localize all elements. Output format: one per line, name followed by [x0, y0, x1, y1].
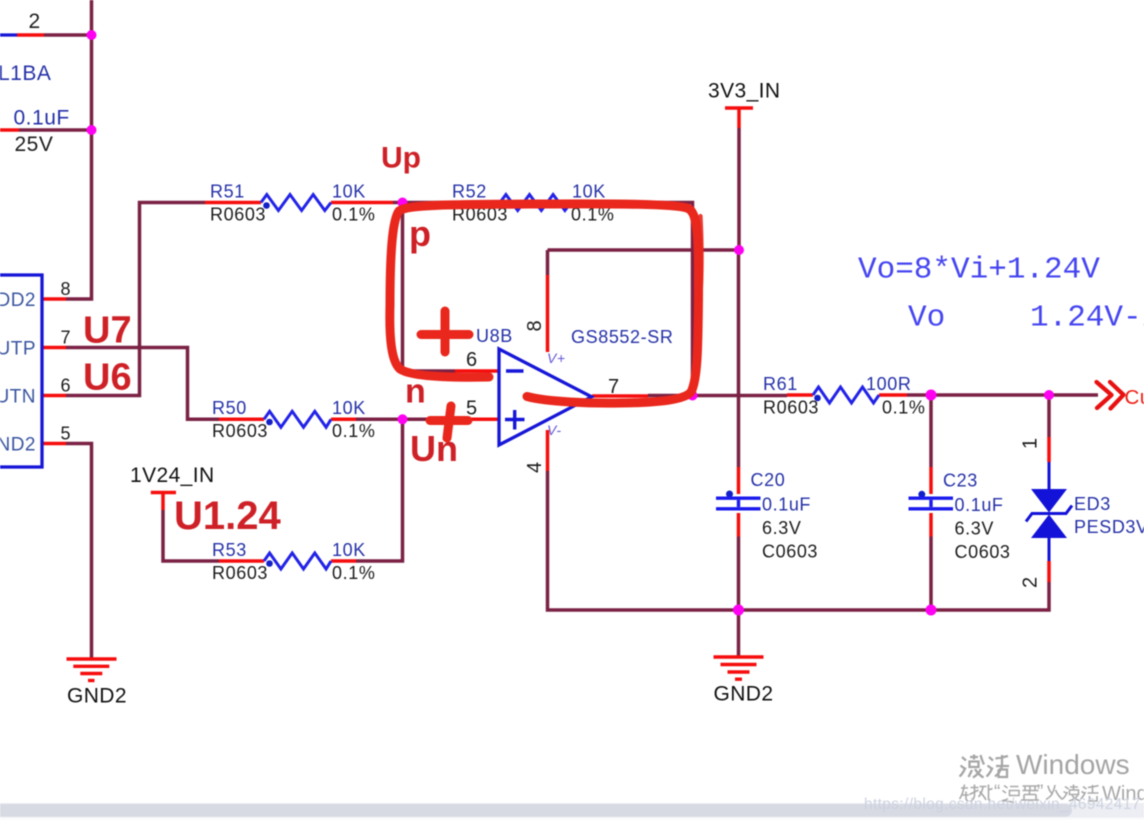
svg-text:10K: 10K	[332, 182, 366, 202]
svg-text:Un: Un	[410, 428, 458, 469]
svg-text:GND2: GND2	[67, 685, 127, 708]
svg-text:U1.24: U1.24	[174, 494, 281, 538]
svg-text:VDD2: VDD2	[0, 290, 36, 311]
svg-text:V-: V-	[547, 422, 561, 438]
svg-text:p: p	[409, 213, 431, 254]
svg-text:OUTP: OUTP	[0, 339, 36, 360]
svg-text:0.1uF: 0.1uF	[14, 107, 70, 130]
svg-text:1: 1	[1020, 438, 1042, 449]
svg-text:2: 2	[1020, 577, 1042, 588]
svg-text:Vo: Vo	[908, 301, 945, 336]
svg-text:1V24_IN: 1V24_IN	[130, 464, 215, 487]
svg-text:Up: Up	[381, 142, 421, 175]
svg-text:https://blog.csdn.net/weixin_4: https://blog.csdn.net/weixin_46942417	[864, 796, 1141, 813]
svg-text:n: n	[405, 373, 426, 411]
svg-text:3V3_IN: 3V3_IN	[708, 80, 780, 103]
svg-text:0.1%: 0.1%	[332, 421, 375, 441]
svg-text:10K: 10K	[572, 182, 606, 202]
svg-text:L1BA: L1BA	[0, 62, 51, 85]
svg-text:R52: R52	[452, 182, 487, 202]
svg-text:GS8552-SR: GS8552-SR	[571, 327, 673, 347]
svg-text:R53: R53	[212, 540, 247, 560]
svg-text:C0603: C0603	[762, 542, 818, 562]
svg-text:0.1uF: 0.1uF	[955, 495, 1004, 515]
svg-text:R0603: R0603	[763, 398, 819, 418]
svg-text:U8B: U8B	[476, 326, 513, 346]
svg-text:6.3V: 6.3V	[955, 519, 994, 539]
svg-text:10K: 10K	[332, 540, 366, 560]
svg-text:6: 6	[466, 349, 477, 371]
svg-text:10K: 10K	[332, 398, 366, 418]
svg-text:8: 8	[61, 279, 71, 299]
svg-text:1.24V-2: 1.24V-2	[1030, 301, 1144, 336]
svg-text:OUTN: OUTN	[0, 387, 36, 408]
svg-text:8: 8	[524, 320, 546, 331]
svg-text:4: 4	[524, 462, 546, 473]
svg-text:C20: C20	[751, 470, 786, 490]
svg-text:U6: U6	[83, 357, 132, 399]
svg-text:6: 6	[61, 376, 71, 396]
svg-text:7: 7	[608, 376, 619, 398]
svg-text:U7: U7	[83, 310, 132, 352]
svg-text:R51: R51	[210, 182, 245, 202]
svg-text:R0603: R0603	[212, 421, 268, 441]
svg-text:Windows: Windows	[1016, 749, 1130, 780]
svg-text:GND2: GND2	[714, 683, 774, 706]
svg-text:Vo=8*Vi+1.24V: Vo=8*Vi+1.24V	[858, 253, 1100, 288]
svg-text:2: 2	[29, 10, 41, 33]
svg-text:V+: V+	[547, 350, 566, 366]
svg-text:7: 7	[61, 328, 71, 348]
svg-text:C0603: C0603	[955, 542, 1011, 562]
svg-text:25V: 25V	[15, 133, 54, 156]
svg-text:100R: 100R	[866, 374, 911, 394]
svg-text:0.1%: 0.1%	[332, 563, 375, 583]
svg-text:R61: R61	[763, 374, 798, 394]
svg-text:R0603: R0603	[212, 563, 268, 583]
svg-text:5: 5	[61, 424, 71, 444]
svg-text:0.1uF: 0.1uF	[762, 495, 811, 515]
svg-text:6.3V: 6.3V	[762, 518, 801, 538]
svg-text:0.1%: 0.1%	[882, 398, 925, 418]
svg-text:0.1%: 0.1%	[332, 205, 375, 225]
svg-text:ED3: ED3	[1074, 494, 1111, 514]
svg-text:GND2: GND2	[0, 435, 36, 456]
svg-text:C23: C23	[943, 471, 978, 491]
svg-text:R0603: R0603	[210, 205, 266, 225]
svg-text:Cur: Cur	[1125, 386, 1144, 409]
svg-text:R50: R50	[212, 398, 247, 418]
svg-text:PESD3V3L: PESD3V3L	[1074, 517, 1144, 537]
